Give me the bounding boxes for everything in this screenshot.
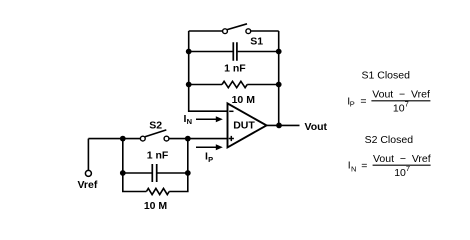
svg-text:P: P	[208, 155, 213, 164]
svg-text:7: 7	[405, 100, 409, 109]
svg-text:10 M: 10 M	[144, 200, 168, 212]
svg-text:Vref: Vref	[78, 179, 98, 191]
svg-text:N: N	[187, 117, 192, 126]
svg-text:Vout − Vref: Vout − Vref	[373, 153, 431, 165]
svg-text:S1 Closed: S1 Closed	[362, 70, 411, 82]
svg-text:DUT: DUT	[233, 120, 255, 132]
svg-text:Vout − Vref: Vout − Vref	[372, 89, 430, 101]
svg-text:S2: S2	[149, 120, 162, 132]
svg-text:1 nF: 1 nF	[224, 63, 246, 75]
svg-text:P: P	[350, 99, 355, 108]
svg-text:1 nF: 1 nF	[147, 150, 169, 162]
svg-text:10 M: 10 M	[232, 94, 256, 106]
svg-text:S1: S1	[250, 36, 263, 48]
svg-text:=: =	[361, 160, 367, 172]
svg-text:Vout: Vout	[305, 121, 328, 133]
svg-text:10: 10	[394, 167, 406, 179]
svg-text:S2 Closed: S2 Closed	[365, 134, 414, 146]
svg-text:10: 10	[393, 102, 405, 114]
svg-text:N: N	[351, 165, 356, 174]
svg-text:=: =	[360, 96, 366, 108]
svg-text:7: 7	[406, 164, 410, 173]
